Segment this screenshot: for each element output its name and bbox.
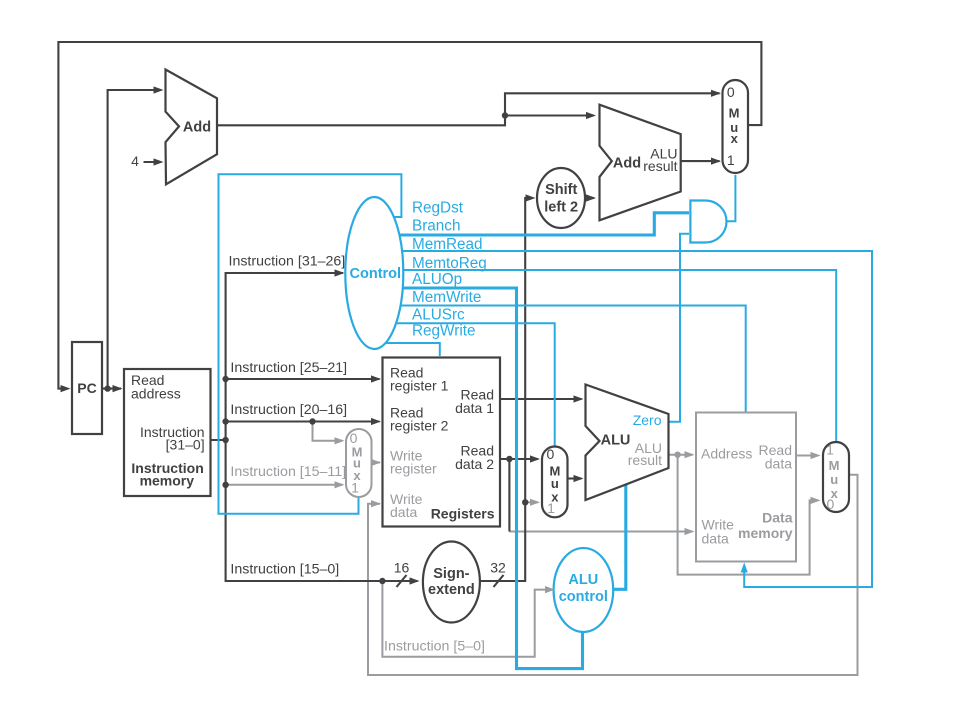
svg-text:MemWrite: MemWrite (412, 289, 481, 306)
svg-text:result: result (643, 158, 677, 174)
svg-text:32: 32 (490, 559, 506, 575)
svg-text:control: control (559, 589, 608, 605)
svg-text:Instruction [31–26]: Instruction [31–26] (229, 254, 346, 270)
svg-text:Instruction [20–16]: Instruction [20–16] (230, 402, 347, 418)
svg-text:RegDst: RegDst (412, 200, 464, 217)
svg-text:Control: Control (350, 266, 402, 282)
svg-text:data 2: data 2 (455, 456, 494, 472)
svg-text:x: x (731, 131, 739, 146)
svg-text:register 1: register 1 (390, 378, 449, 394)
svg-text:Sign-: Sign- (433, 566, 469, 582)
svg-text:1: 1 (351, 479, 359, 495)
svg-text:u: u (830, 472, 838, 487)
svg-text:extend: extend (428, 582, 475, 598)
svg-text:memory: memory (140, 473, 195, 489)
svg-text:Instruction [5–0]: Instruction [5–0] (384, 639, 485, 655)
svg-text:Add: Add (613, 156, 641, 172)
svg-text:MemRead: MemRead (412, 236, 483, 253)
svg-text:Data: Data (762, 510, 793, 526)
svg-text:0: 0 (547, 446, 555, 462)
svg-text:RegWrite: RegWrite (412, 323, 475, 340)
svg-text:register 2: register 2 (390, 418, 449, 434)
svg-text:data: data (702, 531, 729, 547)
svg-text:result: result (628, 452, 662, 468)
svg-text:1: 1 (826, 441, 834, 457)
svg-text:Branch: Branch (412, 218, 460, 235)
svg-text:M: M (829, 458, 840, 473)
svg-text:data: data (390, 504, 417, 520)
svg-text:register: register (390, 461, 437, 477)
svg-text:[31–0]: [31–0] (166, 437, 205, 453)
svg-text:Instruction [15–11]: Instruction [15–11] (230, 464, 346, 480)
svg-text:4: 4 (131, 153, 139, 169)
svg-text:ALUOp: ALUOp (412, 271, 462, 288)
svg-text:left 2: left 2 (544, 199, 578, 215)
svg-text:memory: memory (738, 525, 793, 541)
svg-text:Shift: Shift (545, 182, 577, 198)
svg-text:MemtoReg: MemtoReg (412, 255, 487, 272)
svg-text:Registers: Registers (431, 506, 495, 522)
svg-text:M: M (729, 105, 740, 120)
svg-text:0: 0 (727, 84, 735, 100)
svg-text:PC: PC (77, 380, 96, 396)
svg-text:0: 0 (827, 496, 835, 512)
svg-text:data 1: data 1 (455, 400, 494, 416)
svg-text:ALU: ALU (568, 572, 598, 588)
svg-text:address: address (131, 386, 181, 402)
svg-text:Address: Address (701, 445, 752, 461)
svg-text:Zero: Zero (633, 412, 662, 428)
svg-text:Add: Add (183, 120, 211, 136)
svg-text:Instruction [25–21]: Instruction [25–21] (230, 360, 347, 376)
svg-text:16: 16 (394, 559, 410, 575)
svg-text:1: 1 (547, 500, 555, 516)
svg-text:Instruction [15–0]: Instruction [15–0] (230, 562, 339, 578)
svg-text:data: data (765, 455, 792, 471)
svg-text:1: 1 (727, 152, 735, 168)
svg-text:ALUSrc: ALUSrc (412, 306, 465, 323)
svg-text:ALU: ALU (601, 433, 631, 449)
